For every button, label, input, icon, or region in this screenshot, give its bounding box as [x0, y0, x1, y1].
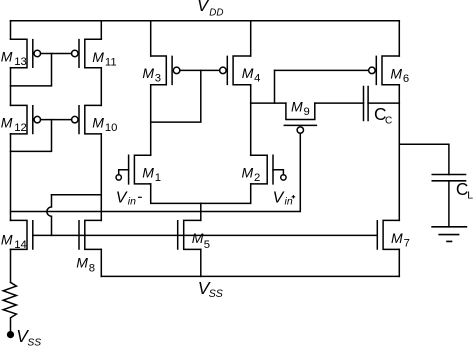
wire bias branch from M10/M8 column — [52, 194, 102, 196]
transistor M10 — [72, 105, 118, 134]
wire M3 drain lead from VDD — [150, 21, 152, 56]
ground — [432, 227, 466, 242]
node Vin- label — [116, 190, 136, 208]
transistor M8 — [76, 220, 101, 274]
svg-text:M: M — [391, 230, 403, 246]
svg-text:M: M — [1, 49, 13, 65]
node VSS label bottom left — [16, 326, 41, 348]
svg-text:M: M — [92, 115, 104, 131]
svg-text:M: M — [1, 231, 13, 247]
node VSS terminal dot — [8, 332, 14, 338]
wire M12 source down to M14 drain — [10, 134, 12, 221]
svg-text:M: M — [242, 65, 254, 81]
wire M13 source to M12 drain — [10, 68, 12, 106]
transistor M6 — [369, 56, 410, 85]
svg-text:9: 9 — [304, 106, 310, 118]
node Vin- input terminal — [116, 175, 121, 180]
wire VSS rail — [101, 275, 399, 277]
transistor M7 — [377, 220, 410, 249]
wire M3 drain to M1 drain — [150, 85, 152, 156]
transistor M11 — [72, 39, 117, 68]
wire tap up to M6 gate line — [274, 70, 276, 103]
node Vin+ label — [273, 189, 293, 207]
svg-text:13: 13 — [14, 56, 27, 68]
wire M2 source path — [201, 184, 251, 204]
svg-text:C: C — [385, 115, 392, 126]
svg-text:M: M — [142, 65, 154, 81]
wire CC to output column — [368, 102, 399, 104]
svg-text:M: M — [192, 230, 204, 246]
wire bias drop with hop over node line — [47, 195, 52, 236]
svg-text:2: 2 — [254, 172, 260, 184]
wire M3 diode connection — [151, 70, 201, 122]
transistor M14 — [1, 220, 33, 251]
wire M8 source to VSS rail — [100, 249, 102, 276]
svg-text:V: V — [197, 0, 210, 15]
svg-text:14: 14 — [14, 239, 27, 251]
wire M6 source lead from VDD — [398, 21, 400, 56]
node Vin+ plus sign — [292, 196, 294, 198]
wire M13/M11 gate wire — [41, 52, 72, 54]
node VDD label — [197, 0, 224, 19]
transistor M3 — [142, 56, 179, 85]
wire gate drop to M12 source node — [11, 120, 52, 152]
wire M3/M4 gate wire — [180, 69, 220, 71]
node Vin+ input terminal — [281, 175, 286, 180]
wire tail node to M5 drain — [200, 203, 202, 220]
wire gate bias line M14-M8-M5-M7 — [33, 234, 378, 236]
wire M14 source to resistor — [10, 249, 12, 282]
svg-text:SS: SS — [27, 338, 41, 348]
resistor bias R — [3, 282, 16, 331]
wire gate drop to M13 source node — [11, 53, 52, 85]
wire M4 drain to M2 drain — [250, 85, 252, 156]
transistor M2 — [242, 155, 274, 184]
wire VDD rail — [11, 20, 400, 22]
capacitor CC — [364, 87, 393, 127]
wire M13 drain lead from VDD — [10, 21, 12, 40]
transistor M9 — [284, 99, 316, 134]
svg-text:M: M — [92, 49, 104, 65]
node Vin- minus sign — [139, 196, 142, 198]
svg-text:L: L — [467, 189, 473, 201]
wire M5 source to VSS rail — [200, 249, 202, 276]
wire M7 source to VSS rail — [398, 249, 400, 276]
wire M10 source down to M8 drain — [100, 134, 102, 221]
wire M1 source path — [151, 184, 201, 204]
svg-text:11: 11 — [105, 57, 117, 69]
svg-text:M: M — [242, 164, 254, 180]
svg-text:5: 5 — [204, 239, 210, 251]
wire M6 gate line — [275, 69, 369, 71]
svg-text:M: M — [1, 115, 13, 131]
svg-text:12: 12 — [14, 122, 27, 134]
wire M2 gate lead — [273, 170, 283, 175]
wire M1 gate lead — [119, 170, 129, 175]
svg-text:in: in — [128, 195, 136, 207]
svg-text:in: in — [285, 196, 293, 208]
svg-text:DD: DD — [209, 8, 223, 19]
svg-text:M: M — [142, 164, 154, 180]
svg-text:V: V — [273, 189, 285, 206]
svg-text:M: M — [390, 66, 402, 82]
wire M12/M10 gate wire — [41, 119, 72, 121]
transistor M5 — [178, 220, 210, 251]
wire M14 drain node line to M9 gate — [11, 133, 301, 211]
wire M11 drain lead from VDD — [100, 21, 102, 40]
svg-text:4: 4 — [254, 73, 260, 85]
wire CL to ground — [448, 181, 450, 227]
wire M4 drain branch to M9 — [251, 102, 286, 104]
svg-text:3: 3 — [155, 73, 161, 85]
svg-text:8: 8 — [89, 263, 95, 275]
svg-text:10: 10 — [105, 122, 118, 134]
svg-text:7: 7 — [404, 238, 410, 250]
capacitor CL — [432, 175, 473, 202]
wire output column M6 drain to M7 drain — [398, 85, 400, 221]
svg-text:6: 6 — [403, 73, 409, 85]
transistor M4 — [220, 56, 261, 85]
wire M4 drain lead from VDD — [250, 21, 252, 56]
node VSS label center — [198, 278, 223, 300]
wire output branch to CL — [399, 144, 449, 174]
transistor M1 — [129, 155, 161, 184]
svg-text:1: 1 — [155, 172, 161, 184]
wire M11 source to M10 drain — [100, 68, 102, 106]
transistor M13 — [1, 39, 41, 68]
svg-text:V: V — [116, 190, 128, 207]
svg-text:M: M — [76, 254, 88, 270]
wire M9 to CC — [315, 102, 364, 104]
svg-text:SS: SS — [209, 288, 223, 300]
svg-text:M: M — [291, 99, 303, 115]
transistor M12 — [1, 105, 41, 134]
